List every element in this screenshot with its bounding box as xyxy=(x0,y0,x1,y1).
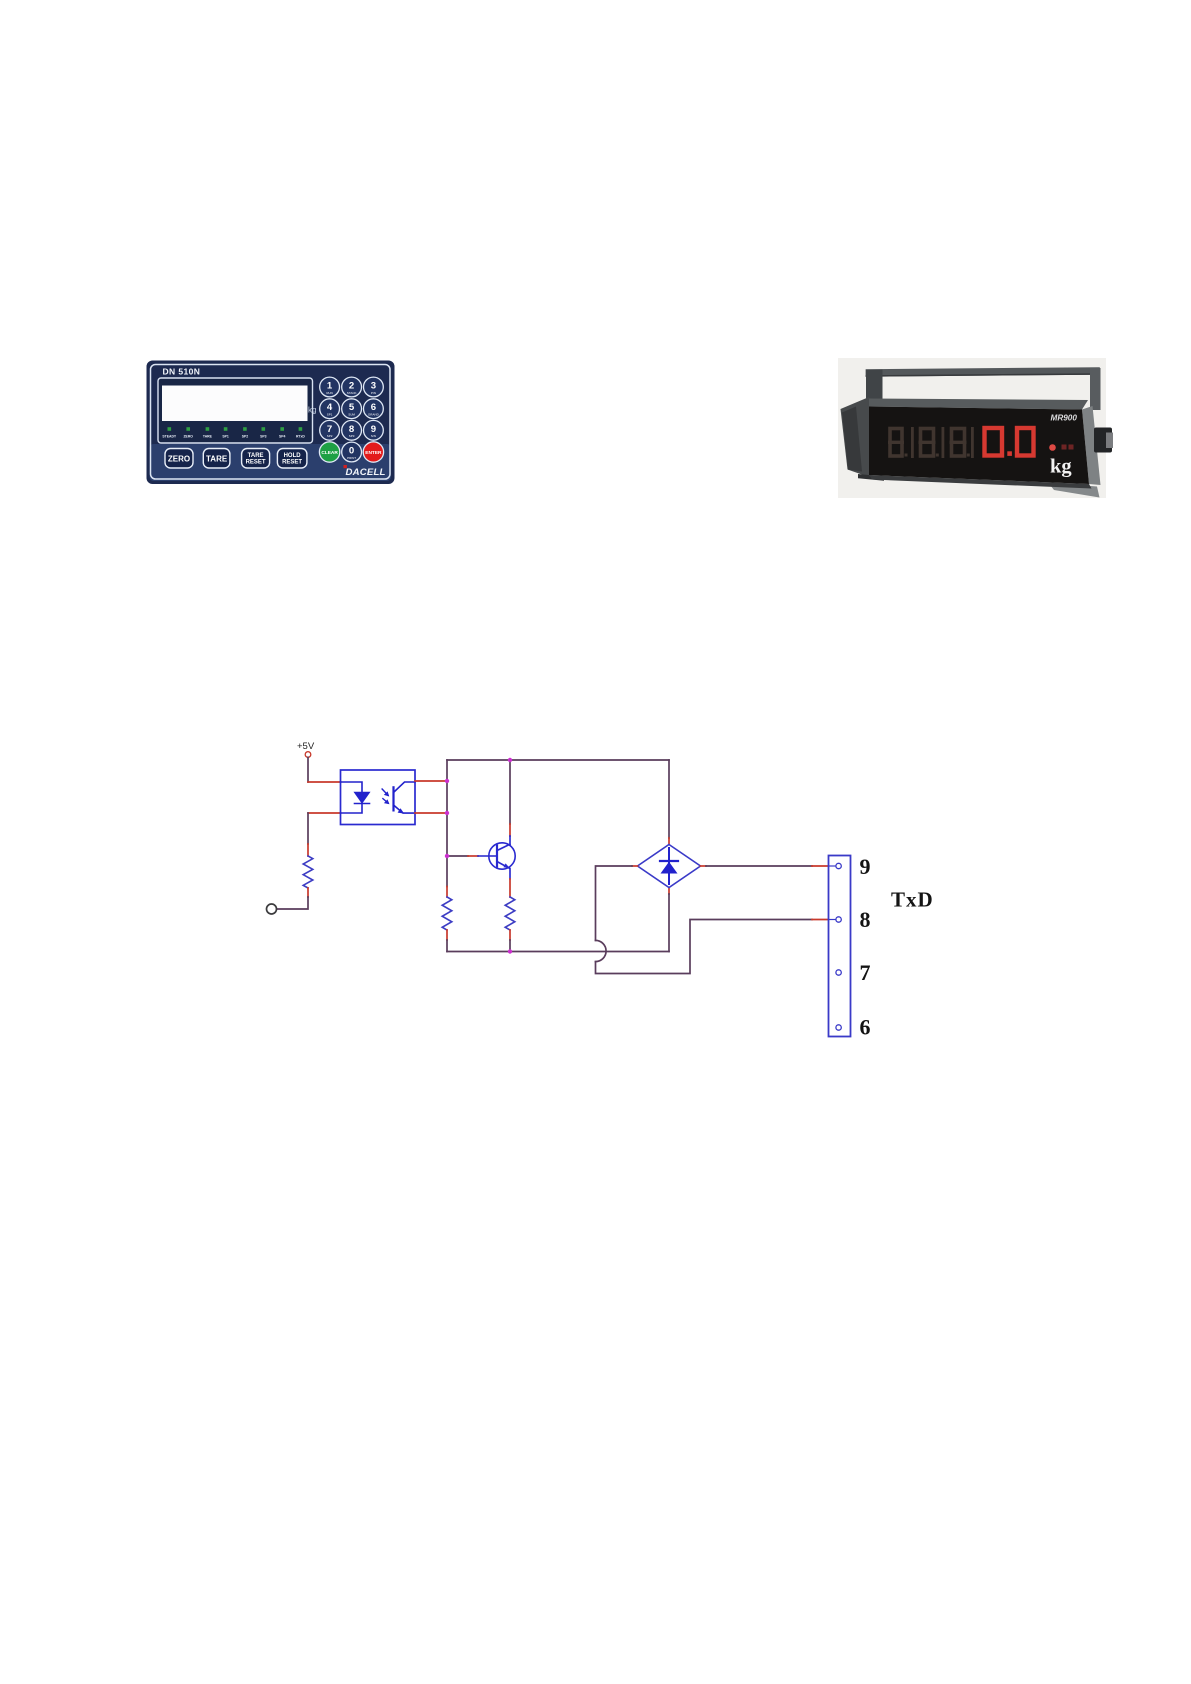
wire opto collector out (red) xyxy=(415,780,447,782)
pin 8 xyxy=(836,917,841,922)
wire left rail xyxy=(446,760,448,887)
pin 7 xyxy=(836,970,841,975)
wire emitter down xyxy=(509,869,511,880)
pin 6 xyxy=(836,1025,841,1030)
bright 0.0 xyxy=(985,428,1034,456)
svg-text:6: 6 xyxy=(860,1015,871,1040)
pin 9 xyxy=(836,863,841,868)
svg-text:TxD: TxD xyxy=(891,888,934,912)
connector J1 xyxy=(829,856,851,1037)
photo: MR900 large LED display xyxy=(836,356,1114,504)
opto light arrows xyxy=(382,789,389,804)
wire R1 to input terminal xyxy=(307,888,309,897)
svg-text:7: 7 xyxy=(860,960,871,985)
wire opto cathode return (red) xyxy=(308,812,341,814)
svg-text:9: 9 xyxy=(860,854,871,879)
opto-coupler U1 box xyxy=(341,770,416,825)
wire hop over bottom bus xyxy=(596,940,607,961)
input terminal xyxy=(267,904,277,914)
bottom right support xyxy=(1048,483,1100,498)
junction dots xyxy=(445,758,512,954)
transistor Q1 xyxy=(489,843,515,869)
wire cathode down to R1 xyxy=(307,813,309,844)
bottom foot xyxy=(858,474,884,481)
handle bar xyxy=(866,367,1100,377)
handle left leg xyxy=(866,370,883,401)
bottom lip xyxy=(869,475,1092,489)
handle right leg xyxy=(1090,368,1101,410)
front face xyxy=(869,407,1089,485)
wire diamond left branch with hop xyxy=(632,865,638,867)
svg-text:8: 8 xyxy=(860,907,871,932)
wire collector rail xyxy=(509,760,511,824)
keypad xyxy=(319,377,383,462)
wire diamond bottom xyxy=(668,888,670,895)
wire diamond top rail xyxy=(668,760,670,838)
wire to connector pin8 xyxy=(596,920,813,974)
wire R3 bottom xyxy=(509,930,511,940)
wire opto emitter out (red) xyxy=(415,812,447,814)
power terminal +5V xyxy=(305,752,311,758)
resistor R1 xyxy=(303,856,313,888)
body top face xyxy=(869,399,1088,410)
wire top bus xyxy=(447,759,669,761)
opto LED xyxy=(341,782,370,813)
wire opto anode (red) xyxy=(308,781,341,783)
body right slant face xyxy=(1082,406,1101,485)
buttons xyxy=(165,449,307,469)
resistor R2 xyxy=(442,897,452,930)
LED row xyxy=(168,427,303,431)
wire bottom bus xyxy=(447,951,669,953)
svg-text:+5V: +5V xyxy=(297,741,315,752)
wire R2 bottom xyxy=(446,930,448,940)
display bezel xyxy=(158,378,313,443)
diode bridge D1 diamond xyxy=(638,845,701,888)
pin labels xyxy=(860,854,871,1040)
wire diamond right to pin9 xyxy=(701,865,707,867)
red pilot LED xyxy=(1049,444,1056,451)
opto phototransistor xyxy=(394,782,416,814)
dim digits 8 8 8 xyxy=(888,427,974,458)
DACELL logo xyxy=(344,465,347,468)
diode inside D1 xyxy=(660,848,678,884)
resistor R3 xyxy=(505,897,515,930)
body left wedge xyxy=(841,397,870,477)
photo: DACELL DN-510N indicator panel xyxy=(146,360,395,485)
side knob xyxy=(1094,428,1112,453)
wire +5V drop xyxy=(307,757,309,782)
wire base xyxy=(447,855,468,857)
